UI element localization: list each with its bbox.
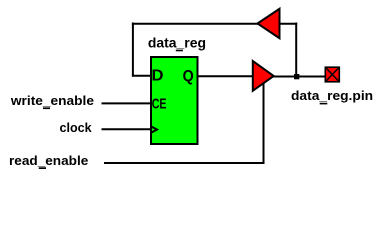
- wire: read_enable vertical to buffer U1 enable: [263, 83, 265, 164]
- wire: write_enable to CE: [102, 102, 152, 104]
- svg-text:clock: clock: [60, 120, 93, 135]
- svg-text:read_enable: read_enable: [9, 153, 88, 168]
- wire: Q output to buffer U1 input: [197, 75, 254, 77]
- buffer U2 (feedback path, pointing left): [258, 9, 280, 38]
- svg-text:data_reg: data_reg: [148, 35, 206, 51]
- svg-text:CE: CE: [152, 96, 167, 113]
- svg-text:write_enable: write_enable: [10, 93, 94, 108]
- wire: right vertical (junction up to feedback): [295, 23, 297, 77]
- clock chevron: [151, 126, 157, 133]
- wire: clock to C input: [102, 128, 152, 130]
- underscore of data_reg.pin label: [320, 103, 328, 105]
- svg-text:Q: Q: [183, 68, 194, 85]
- wire: feedback top horizontal (buffer U2 output to node D): [132, 23, 258, 25]
- underscore of write_enable label: [43, 107, 50, 109]
- wire: D input segment: [132, 75, 151, 77]
- svg-text:data_reg.pin: data_reg.pin: [291, 88, 373, 103]
- pin marker data_reg.pin: [325, 67, 339, 82]
- svg-text:D: D: [152, 67, 164, 84]
- tristate buffer U1 (read path): [253, 61, 274, 91]
- wire: feedback left vertical: [132, 23, 134, 77]
- flip-flop data_reg body: [151, 57, 198, 144]
- wire: top right horizontal (node to buffer U2 input): [280, 23, 298, 25]
- wire: read_enable horizontal: [104, 162, 265, 164]
- underscore of data_reg label: [176, 50, 183, 52]
- underscore of read_enable label: [39, 167, 46, 169]
- junction node: [294, 74, 299, 79]
- wire: buffer U1 output to pin: [273, 76, 326, 78]
